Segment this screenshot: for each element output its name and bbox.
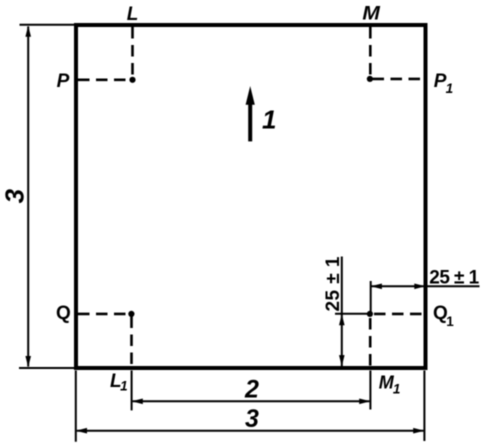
label 3 (left, rotated)	[0, 188, 30, 203]
svg-text:2: 2	[244, 375, 259, 403]
dimension left 3: dimension line with arrows	[25, 26, 31, 368]
label P	[57, 71, 70, 92]
label 25 ± 1 (vertical, rotated)	[323, 256, 344, 311]
dimension 25±1 vertical: dimension line with arrows	[339, 257, 345, 367]
dimension bottom 2: dimension line with arrows	[132, 399, 371, 405]
specimen square outline	[76, 25, 426, 368]
dimension bottom 2: right extension line	[369, 371, 371, 410]
svg-text:1: 1	[262, 104, 276, 134]
svg-text:3: 3	[245, 405, 259, 433]
label M	[362, 3, 381, 24]
svg-text:Q: Q	[56, 303, 71, 324]
wire: corner mark P dashed horizontal	[78, 79, 130, 82]
dimension 25±1 horizontal: vertical extension line	[370, 281, 372, 314]
wire: corner mark L1 dashed vertical	[130, 317, 133, 367]
wire: corner mark M1 dashed vertical	[369, 318, 372, 366]
label L	[127, 4, 139, 25]
wire: corner mark Q1 dashed horizontal	[374, 313, 424, 316]
dimension left 3: top extension line	[20, 24, 77, 26]
dimension left 3: bottom extension line	[19, 367, 76, 369]
dimension 25±1 vertical: horizontal extension line	[335, 313, 367, 315]
dimension bottom 3: dimension line with arrows	[76, 428, 425, 434]
wire: corner mark L dashed vertical	[131, 27, 134, 80]
wire: corner mark Q dashed horizontal	[78, 313, 129, 316]
label Q1	[433, 303, 454, 329]
svg-text:M: M	[362, 3, 381, 24]
svg-text:25 ± 1: 25 ± 1	[429, 268, 479, 289]
label M1	[379, 372, 401, 396]
svg-text:3: 3	[0, 188, 30, 203]
dimension bottom 3: left extension line	[75, 371, 77, 442]
label P1	[434, 71, 453, 96]
node dot LP (top-left)	[129, 77, 135, 83]
dimension 25±1 horizontal: dimension line with arrows	[371, 284, 480, 290]
node dot MP1 (top-right)	[367, 76, 373, 82]
label 3 (bottom)	[245, 405, 259, 433]
node dot Q1M1 (bottom-right)	[367, 311, 373, 317]
dimension bottom 3: right extension line	[423, 371, 425, 442]
svg-text:P: P	[57, 71, 70, 92]
dimension bottom 2: left extension line	[131, 371, 133, 411]
label 1	[262, 104, 276, 134]
arrow 1 (direction indicator)	[246, 86, 255, 141]
label 2	[244, 375, 259, 403]
label L1	[110, 371, 128, 394]
svg-text:25 ± 1: 25 ± 1	[323, 256, 344, 311]
node dot QL1 (bottom-left)	[128, 311, 134, 317]
label Q	[56, 303, 71, 324]
svg-text:L: L	[127, 4, 139, 25]
label 25 ± 1 (horizontal)	[429, 268, 479, 289]
wire: corner mark P1 dashed horizontal	[373, 78, 424, 81]
wire: corner mark M dashed vertical	[369, 27, 372, 79]
